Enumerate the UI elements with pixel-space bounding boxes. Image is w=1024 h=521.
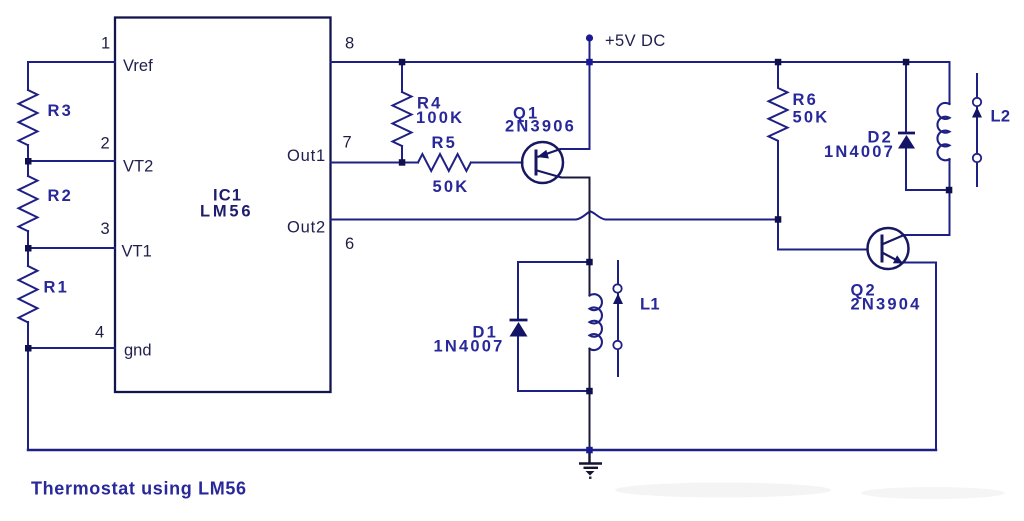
diode D2 triangle	[898, 135, 915, 149]
node ground rail junction	[586, 447, 593, 454]
node +5V rail junction	[586, 59, 593, 66]
svg-text:50K: 50K	[433, 178, 470, 196]
wire R4 bottom lead	[401, 146, 403, 163]
svg-text:VT2: VT2	[123, 158, 153, 176]
transistor Q1 emitter arrow	[537, 150, 549, 159]
svg-text:R6: R6	[793, 91, 819, 109]
wire L2 node down to Q2 collector	[904, 190, 950, 235]
wire Out2 pin6 with crossover hump	[331, 212, 779, 220]
node +5V terminal dot	[586, 34, 593, 41]
node D2 L2 bottom junction	[946, 187, 953, 194]
svg-text:7: 7	[343, 134, 352, 152]
wire R6 node down to Q2 base	[778, 220, 867, 250]
svg-text:LM56: LM56	[200, 203, 253, 221]
wire R3 to VT2 node	[27, 145, 29, 176]
node D2 top junction	[903, 59, 910, 66]
node VT2 junction	[25, 158, 32, 165]
wire D1 bottom branch	[518, 390, 590, 392]
svg-text:L2: L2	[991, 108, 1011, 126]
svg-text:R1: R1	[44, 279, 70, 297]
diode D1 leads	[517, 262, 519, 391]
node L1 bottom junction	[586, 388, 593, 395]
contact arrow L2	[972, 107, 982, 118]
wire bottom ground rail	[28, 449, 936, 452]
transistor Q2 circle	[868, 228, 909, 269]
svg-text:8: 8	[345, 35, 354, 53]
transistor Q1 emitter diagonal	[538, 149, 561, 157]
diode D1 cathode bar	[510, 319, 528, 322]
wire R1 to gnd node and down to bottom rail	[27, 322, 29, 450]
wire collector line through hump down to L1 node	[589, 198, 591, 262]
contact arrow L1	[613, 294, 623, 305]
svg-text:Thermostat using LM56: Thermostat using LM56	[31, 479, 247, 499]
ground symbol dot	[589, 477, 592, 480]
wire D1 top branch	[518, 261, 590, 263]
svg-text:1N4007: 1N4007	[434, 338, 505, 356]
wire Q1 collector down to L1	[562, 178, 590, 263]
relay contact for L1	[617, 261, 619, 376]
svg-text:1N4007: 1N4007	[824, 143, 895, 161]
diode D2 cathode bar	[898, 132, 915, 135]
inductor L1 coil	[590, 294, 602, 350]
watermark smudge left	[615, 483, 831, 498]
svg-text:R3: R3	[48, 102, 74, 120]
transistor Q2 emitter arrow	[893, 255, 903, 263]
ground symbol	[579, 450, 602, 468]
wire Q2 emitter to bottom rail	[901, 263, 936, 451]
transistor Q1 collector diagonal	[537, 171, 562, 178]
wire Vref pin1	[28, 61, 115, 63]
resistor R6	[769, 62, 788, 220]
inductor L2 coil	[937, 103, 949, 160]
svg-text:2N3906: 2N3906	[505, 118, 576, 136]
node R4 bottom junction	[399, 159, 406, 166]
node R6 bottom junction	[775, 216, 782, 223]
svg-text:VT1: VT1	[122, 243, 152, 261]
resistor R2	[19, 176, 38, 231]
wire left rail top segment	[27, 62, 29, 90]
svg-text:50K: 50K	[793, 109, 830, 127]
transistor Q2 collector diagonal	[883, 235, 904, 244]
wire gnd pin4	[28, 347, 115, 349]
resistor R4	[393, 92, 412, 146]
contact circle L2 bottom	[973, 154, 981, 162]
svg-text:L1: L1	[640, 296, 660, 314]
node VT1 junction	[25, 245, 32, 252]
svg-text:6: 6	[345, 235, 354, 253]
transistor Q2 base bar	[881, 235, 884, 263]
svg-text:R2: R2	[48, 187, 74, 205]
wire Q1 emitter to +5V rail	[561, 62, 590, 149]
svg-text:R5: R5	[432, 134, 458, 152]
wire +5V terminal stub	[589, 38, 591, 62]
inductor L2 leads	[949, 159, 951, 190]
ground symbol arrow	[586, 471, 595, 476]
svg-text:+5V DC: +5V DC	[605, 32, 666, 50]
svg-text:1: 1	[101, 35, 110, 53]
diode D1 triangle	[510, 322, 528, 337]
watermark smudge right	[861, 487, 1005, 499]
resistor R3	[19, 90, 38, 145]
contact circle L1 top	[613, 284, 621, 292]
inductor L1 top lead	[589, 262, 591, 296]
wire R4 top lead	[401, 62, 403, 92]
wire top +5V rail pin8	[331, 61, 950, 63]
relay contact for L2	[976, 74, 978, 186]
svg-text:Vref: Vref	[123, 57, 153, 75]
contact circle L2 top	[973, 98, 981, 106]
resistor R1	[19, 266, 38, 322]
node R6 top junction	[775, 59, 782, 66]
svg-text:Out1: Out1	[287, 147, 326, 165]
transistor Q2 emitter diagonal	[883, 253, 901, 263]
diode D2 lead wires	[906, 62, 950, 190]
svg-text:2N3904: 2N3904	[851, 296, 922, 314]
resistor R5	[418, 154, 471, 171]
node gnd junction	[25, 345, 32, 352]
svg-text:Out2: Out2	[287, 219, 326, 237]
node L1 top junction	[586, 259, 593, 266]
wire Out1 pin7	[331, 162, 419, 164]
svg-text:4: 4	[95, 324, 104, 342]
svg-text:gnd: gnd	[124, 342, 152, 360]
contact circle L1 bottom	[613, 341, 621, 349]
wire R5 to Q1 base	[471, 162, 523, 164]
wire rail down to L2 top	[949, 62, 951, 104]
wire VT2 pin2	[28, 160, 115, 162]
transistor Q1 base bar	[535, 150, 538, 176]
svg-text:2: 2	[101, 135, 110, 153]
node R4 top junction	[399, 59, 406, 66]
svg-text:3: 3	[101, 220, 110, 238]
svg-text:100K: 100K	[416, 109, 464, 127]
wire R2 to VT1 node	[27, 231, 29, 266]
transistor Q1 circle	[522, 142, 563, 183]
inductor L1 bottom lead	[589, 349, 591, 450]
IC1 box	[115, 18, 331, 393]
wire VT1 pin3	[28, 247, 115, 249]
